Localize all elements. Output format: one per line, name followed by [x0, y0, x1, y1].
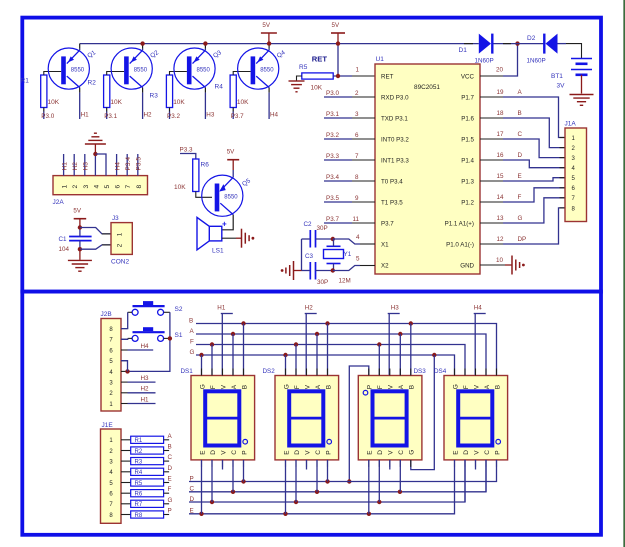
wire 5V to RET node: [336, 41, 340, 76]
wire R6 to Q5 base: [196, 192, 212, 198]
svg-text:H1: H1: [61, 162, 68, 171]
svg-text:10K: 10K: [311, 85, 323, 92]
wire U1 pin 7 net P3.3: [324, 159, 375, 161]
svg-text:10K: 10K: [237, 99, 249, 106]
svg-text:1N60P: 1N60P: [527, 58, 546, 65]
svg-text:DP: DP: [518, 236, 527, 243]
node G label: [497, 215, 523, 222]
svg-text:A: A: [315, 384, 322, 389]
svg-text:D2: D2: [527, 35, 536, 42]
node P3.0 label: [326, 90, 359, 97]
svg-text:H4: H4: [474, 305, 483, 312]
svg-text:G: G: [518, 215, 523, 222]
wire DS2 V stub: [306, 460, 308, 470]
svg-text:A: A: [231, 384, 238, 389]
svg-text:E: E: [190, 508, 194, 515]
svg-text:D: D: [168, 465, 173, 472]
wire 5V rail: [80, 43, 479, 45]
svg-text:12M: 12M: [339, 278, 351, 285]
node H1 drive: [217, 305, 233, 376]
switch S1: [132, 327, 183, 341]
resistor R6 (bottom): [121, 490, 169, 498]
svg-text:V: V: [473, 384, 480, 389]
svg-text:16: 16: [497, 152, 505, 159]
node E label: [497, 173, 522, 180]
svg-text:14: 14: [497, 194, 505, 201]
svg-text:F: F: [210, 385, 217, 389]
transistor Q1: [48, 48, 97, 89]
wire base R1 to Q1: [44, 72, 61, 76]
wire speaker to ground: [222, 237, 242, 239]
svg-text:P3.1: P3.1: [104, 113, 117, 120]
power 5V at C1: [73, 208, 86, 228]
display DS1: [181, 368, 255, 467]
svg-text:5V: 5V: [332, 22, 340, 29]
svg-text:5: 5: [104, 185, 111, 189]
node H4 drive: [474, 305, 486, 376]
svg-text:LS1: LS1: [212, 248, 224, 255]
svg-text:R5: R5: [299, 64, 308, 71]
wire DS3 P pin route: [347, 366, 369, 484]
svg-text:30P: 30P: [317, 279, 328, 286]
node H2 drive: [305, 305, 317, 376]
node H2: [144, 112, 153, 119]
svg-text:15: 15: [497, 173, 505, 180]
resistor R3: [150, 75, 186, 108]
wire collector Q4 to H4: [268, 88, 270, 120]
node P3.3 label: [326, 153, 359, 160]
wire DS1 top pin to bus G: [201, 355, 203, 376]
resistor R7 (bottom): [121, 500, 169, 508]
op-amp U1 89C2051 body: [375, 56, 480, 274]
wire J2A pin2 net H2: [72, 154, 79, 176]
wire DS3 G pin route: [411, 355, 435, 470]
wire DS1 bottom pin to bus D: [211, 460, 213, 502]
ground at U1 pin10: [512, 256, 525, 275]
svg-text:H4: H4: [270, 112, 279, 119]
wire bus P: [189, 460, 497, 484]
ground below battery: [570, 95, 594, 106]
wire R5 to pin1: [333, 74, 375, 78]
svg-text:D: D: [190, 496, 195, 503]
svg-text:P3.5: P3.5: [326, 195, 339, 202]
svg-text:10K: 10K: [173, 99, 185, 106]
wire emitter Q3 to rail: [203, 41, 207, 50]
power 5V at RET: [331, 22, 345, 44]
svg-text:INT0 P3.2: INT0 P3.2: [381, 137, 409, 144]
svg-text:8: 8: [355, 174, 359, 181]
wire DS2 top pin to bus B: [327, 324, 329, 376]
transistor Q3: [174, 48, 223, 89]
svg-text:8550: 8550: [224, 195, 238, 201]
svg-text:9: 9: [355, 195, 359, 202]
wire bus A: [190, 328, 487, 376]
svg-text:5: 5: [356, 256, 360, 263]
wire DS1 top pin to bus F: [211, 345, 213, 376]
svg-text:P: P: [190, 475, 194, 482]
wire DS3 bottom pin to bus D: [378, 460, 380, 502]
svg-text:10K: 10K: [48, 99, 60, 106]
svg-text:P3.2: P3.2: [167, 113, 180, 120]
svg-text:C3: C3: [305, 253, 314, 260]
wire J2B pin6 stub: [121, 349, 128, 351]
display DS3: [358, 368, 426, 467]
svg-text:RXD P3.0: RXD P3.0: [381, 95, 409, 102]
svg-text:E: E: [367, 450, 374, 455]
svg-text:P1.2: P1.2: [461, 200, 474, 207]
svg-text:10K: 10K: [110, 99, 122, 106]
svg-text:X2: X2: [381, 263, 389, 270]
svg-text:H4: H4: [114, 162, 121, 171]
svg-text:P3.3: P3.3: [326, 153, 339, 160]
wire DS2 top pin to bus A: [316, 334, 318, 376]
wire DS1 top pin to bus A: [232, 334, 234, 376]
node D at R4: [168, 465, 173, 472]
resistor R6: [174, 159, 209, 192]
svg-text:P1.5: P1.5: [461, 137, 474, 144]
wire U1 pin 6 net P3.2: [324, 138, 375, 140]
wire J2B pin6 net H4: [128, 343, 154, 350]
wire J2A pin7 net P3.4: [125, 154, 132, 176]
svg-text:S1: S1: [175, 332, 183, 339]
wire S2 left to J2B pin8: [121, 312, 132, 328]
wire U1 pin 19 net A to J1A: [480, 97, 565, 138]
svg-text:H1: H1: [81, 112, 90, 119]
speaker LS1: [197, 217, 224, 254]
svg-text:7: 7: [355, 153, 359, 160]
resistor R2 (bottom): [121, 447, 169, 455]
wire DS3 top pin to bus B: [410, 324, 412, 376]
transistor Q5: [202, 175, 253, 216]
svg-text:S2: S2: [175, 306, 183, 313]
svg-text:F: F: [190, 338, 194, 345]
wire J2B pin1 stub: [121, 403, 128, 405]
wire U1 pin 13 net G to J1A: [480, 198, 565, 223]
node C at R3: [168, 454, 173, 461]
svg-text:R8: R8: [135, 513, 143, 519]
svg-text:H2: H2: [141, 386, 150, 393]
wire DS4 V stub: [475, 460, 477, 470]
wire Q5 collector to speaker: [222, 215, 233, 230]
connector J1A: [565, 121, 587, 222]
svg-text:12: 12: [497, 236, 505, 243]
display DS2: [263, 368, 339, 467]
U1 pin names: [381, 74, 475, 270]
node B label: [497, 110, 522, 117]
svg-text:V: V: [220, 450, 227, 455]
svg-text:D: D: [377, 450, 384, 455]
wire J2B pin4 stub: [121, 370, 128, 372]
crystal Y1: [324, 239, 352, 285]
svg-text:CON2: CON2: [111, 259, 129, 266]
svg-text:1N60P: 1N60P: [475, 58, 494, 65]
svg-text:89C2051: 89C2051: [414, 84, 440, 91]
svg-text:T0 P3.4: T0 P3.4: [381, 179, 403, 186]
wire U1 pin 17 net C to J1A: [480, 139, 565, 158]
wire R1 bottom to P3.0: [43, 108, 45, 120]
transistor Q4: [238, 48, 287, 89]
svg-text:H3: H3: [83, 162, 90, 171]
node P3.7 label: [326, 216, 360, 223]
svg-text:P3.7: P3.7: [231, 113, 244, 120]
svg-text:104: 104: [59, 246, 70, 253]
wire C1 bottom to J3 pin2: [80, 245, 111, 249]
wire DS2 bottom pin to bus P: [327, 460, 329, 482]
svg-text:E: E: [283, 450, 290, 455]
wire DS3 top pin to bus F: [378, 345, 380, 376]
svg-text:6: 6: [115, 185, 122, 189]
wire bus B: [189, 317, 497, 375]
node P3.2: [167, 113, 180, 120]
svg-text:B: B: [241, 385, 248, 389]
svg-text:B: B: [494, 385, 501, 389]
node F label: [497, 194, 522, 201]
svg-text:H3: H3: [391, 305, 400, 312]
wire U1 pin 9 net P3.5: [324, 201, 375, 203]
wire emitter Q2 to rail: [140, 41, 144, 50]
svg-text:B: B: [168, 444, 172, 451]
svg-text:P: P: [367, 385, 374, 389]
svg-text:G: G: [283, 384, 290, 389]
wire crystal left vertical: [301, 239, 303, 271]
svg-text:H1: H1: [217, 305, 226, 312]
svg-text:B: B: [409, 385, 416, 389]
svg-text:5V: 5V: [262, 22, 270, 29]
wire battery to ground: [581, 75, 583, 94]
wire P3.3 to R6: [180, 154, 196, 160]
wire U1 pin 14 net F to J1A: [480, 188, 565, 202]
wire U1 pin 18 net B to J1A: [480, 118, 565, 148]
svg-text:8550: 8550: [134, 67, 148, 73]
transistor Q2: [111, 48, 160, 89]
wire J2B pin8 stub: [121, 328, 128, 330]
svg-text:3: 3: [83, 185, 90, 189]
svg-text:D1: D1: [459, 47, 468, 54]
ground below C1: [68, 260, 92, 271]
svg-text:DS1: DS1: [181, 368, 194, 375]
svg-text:1: 1: [356, 67, 360, 74]
svg-text:P3.4: P3.4: [326, 174, 339, 181]
svg-text:G: G: [409, 450, 416, 455]
power 5V at Q5: [227, 149, 240, 170]
svg-text:B: B: [325, 385, 332, 389]
svg-text:R1: R1: [135, 438, 143, 444]
resistor R8 (bottom): [121, 511, 169, 519]
ground at R5: [289, 81, 305, 92]
svg-text:TXD P3.1: TXD P3.1: [381, 116, 408, 123]
svg-text:C1: C1: [59, 236, 68, 243]
svg-text:1: 1: [62, 185, 69, 189]
wire DS4 bottom pin to bus D: [464, 460, 466, 502]
node P3.0: [41, 113, 54, 120]
svg-text:F: F: [518, 194, 522, 201]
node H1: [81, 112, 90, 119]
svg-text:P3.0: P3.0: [41, 113, 54, 120]
svg-text:VCC: VCC: [461, 74, 475, 81]
wire J2B pin1 net H1: [128, 396, 156, 403]
svg-text:P3.1: P3.1: [326, 111, 339, 118]
svg-text:B: B: [518, 110, 522, 117]
node RET: [312, 54, 328, 63]
wire D2 to battery: [558, 44, 582, 59]
svg-text:J2A: J2A: [53, 199, 65, 206]
svg-text:17: 17: [497, 131, 505, 138]
svg-text:P: P: [168, 508, 172, 515]
svg-text:V: V: [388, 450, 395, 455]
svg-text:C: C: [398, 450, 405, 455]
wire emitter Q1 to rail: [79, 44, 81, 51]
wire rail D1-D2: [494, 43, 544, 45]
svg-text:2: 2: [117, 243, 124, 247]
svg-text:P3.4: P3.4: [125, 157, 132, 171]
resistor R5 (bottom): [121, 479, 169, 487]
svg-text:P1.3: P1.3: [461, 179, 474, 186]
wire C1 top to J3 pin1: [80, 228, 111, 234]
svg-text:4: 4: [93, 185, 100, 189]
connector J2B: [101, 311, 122, 411]
capacitor C1: [59, 225, 92, 253]
svg-text:F: F: [294, 385, 301, 389]
node P3.5 label: [326, 195, 359, 202]
ground at crystal: [281, 261, 302, 280]
svg-text:8550: 8550: [71, 67, 85, 73]
wire U1 GND pin10: [480, 257, 512, 265]
wire U1 pin 3 net P3.1: [324, 117, 375, 119]
display DS4: [434, 368, 508, 467]
wire X1 to U1: [331, 234, 375, 244]
wire J2B pin2 net H2: [128, 386, 156, 393]
node DP label: [497, 236, 527, 243]
svg-text:A: A: [484, 384, 491, 389]
wire DS2 top pin to bus F: [295, 345, 297, 376]
svg-text:20: 20: [496, 67, 504, 74]
svg-text:V: V: [220, 384, 227, 389]
connector J2A: [53, 176, 148, 206]
node P3.1: [104, 113, 117, 120]
resistor R4: [215, 75, 250, 108]
svg-text:V: V: [304, 450, 311, 455]
svg-text:J1A: J1A: [565, 121, 577, 128]
svg-text:B: B: [189, 317, 193, 324]
wire J2A pin5 to ground: [95, 154, 106, 176]
wire bus F: [190, 338, 465, 375]
capacitor C3: [302, 253, 333, 286]
wire DS2 bottom pin to bus D: [295, 460, 297, 502]
svg-text:18: 18: [497, 110, 505, 117]
wire collector Q2 to H2: [142, 88, 144, 120]
wire S2/S1 right to J2B pin4: [125, 312, 172, 373]
svg-text:INT1 P3.3: INT1 P3.3: [381, 158, 409, 165]
node H3 drive: [388, 305, 400, 376]
svg-text:H2: H2: [305, 305, 314, 312]
wire DS1 bottom pin to bus E: [201, 460, 203, 514]
svg-text:7: 7: [125, 185, 132, 189]
node P3.7: [231, 113, 244, 120]
wire base R3 to Q3: [170, 72, 187, 76]
svg-text:G: G: [199, 384, 206, 389]
wire J2B pin7 stub: [121, 338, 128, 340]
svg-text:8550: 8550: [260, 67, 274, 73]
svg-text:5V: 5V: [73, 208, 81, 215]
resistor R1 (bottom): [121, 436, 169, 444]
svg-text:R6: R6: [135, 492, 143, 498]
svg-text:U1: U1: [376, 56, 385, 63]
svg-text:C: C: [518, 131, 523, 138]
svg-text:10: 10: [496, 257, 504, 264]
svg-text:C: C: [190, 486, 195, 493]
node H4: [270, 112, 279, 119]
svg-text:DS3: DS3: [414, 368, 427, 375]
diode D2 1N60P: [527, 34, 558, 65]
diode D1 1N60P: [459, 34, 494, 65]
resistor R3 (bottom): [121, 458, 169, 466]
wire J2A pin4 to ground: [93, 152, 97, 176]
svg-text:R4: R4: [135, 470, 143, 476]
wire DS1 bottom pin to bus P: [243, 460, 245, 482]
svg-text:R5: R5: [135, 481, 143, 487]
wire bus C: [189, 460, 486, 494]
svg-text:V: V: [388, 384, 395, 389]
svg-text:T1 P3.5: T1 P3.5: [381, 200, 403, 207]
ground above J2A: [85, 133, 106, 154]
svg-text:P3.2: P3.2: [326, 132, 339, 139]
svg-text:GND: GND: [460, 263, 474, 270]
svg-text:X1: X1: [381, 242, 389, 249]
svg-text:P: P: [241, 450, 248, 454]
svg-text:P1.0 A1(-): P1.0 A1(-): [446, 242, 474, 249]
svg-text:G: G: [452, 384, 459, 389]
wire DS1 top pin to bus B: [243, 324, 245, 376]
svg-text:H4: H4: [141, 343, 150, 350]
svg-text:4: 4: [356, 234, 360, 241]
wire X2 to U1: [331, 256, 375, 273]
border frame (top section): [22, 18, 601, 292]
svg-text:P1.4: P1.4: [461, 158, 474, 165]
pin 1 label: [356, 67, 360, 74]
svg-text:H1: H1: [141, 396, 150, 403]
node F at R6: [168, 486, 172, 493]
svg-text:F: F: [377, 385, 384, 389]
wire DS2 bottom pin to bus E: [285, 460, 287, 514]
svg-text:A: A: [398, 384, 405, 389]
wire DS3 top pin to bus A: [399, 334, 401, 376]
svg-text:G: G: [190, 349, 195, 356]
wire bus D: [189, 460, 465, 504]
svg-text:2: 2: [355, 90, 359, 97]
wire J2B pin5 stub: [121, 360, 128, 362]
wire J2A pin1 net H1: [61, 154, 68, 176]
svg-text:R3: R3: [135, 460, 143, 466]
power 5V above Q4: [261, 22, 277, 44]
wire J2B pin5 to pin4 node: [121, 361, 128, 372]
svg-text:J2B: J2B: [101, 311, 112, 318]
wire DS3 V stub: [389, 460, 391, 470]
svg-text:R7: R7: [135, 502, 143, 508]
wire bus E: [189, 460, 455, 516]
svg-text:Y1: Y1: [344, 251, 352, 258]
svg-text:P: P: [325, 450, 332, 454]
wire DS1 V stub: [222, 460, 224, 470]
resistor R5: [299, 64, 333, 92]
wire DS3 bottom pin to bus C: [399, 460, 401, 492]
svg-text:P3.7: P3.7: [326, 216, 339, 223]
svg-text:R6: R6: [201, 162, 210, 169]
svg-text:J3: J3: [112, 215, 119, 222]
wire C1 to ground: [79, 249, 81, 260]
resistor R4 (bottom): [121, 468, 169, 476]
svg-text:H3: H3: [141, 375, 150, 382]
svg-text:H2: H2: [72, 162, 79, 171]
